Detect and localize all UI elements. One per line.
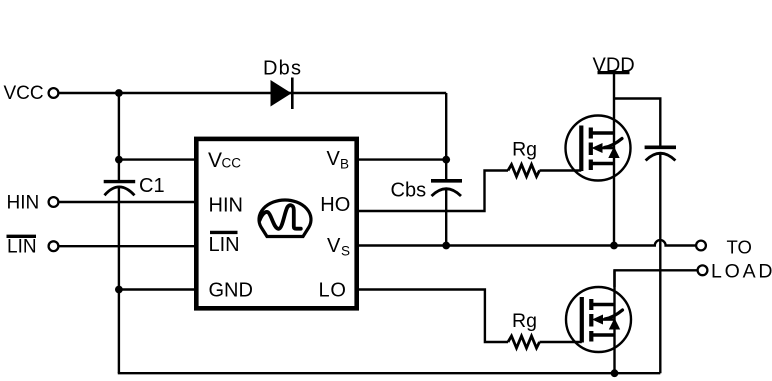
svg-text:LIN: LIN (209, 234, 240, 256)
terminal TO (696, 241, 706, 251)
svg-text:CC: CC (222, 156, 242, 171)
wire Q2 drain-source vertical (613, 270, 615, 373)
wire Rg to gate (upper) (540, 169, 582, 171)
svg-text:TO: TO (727, 237, 752, 258)
resistor Rg (upper) (508, 165, 540, 177)
wire LIN to IC (59, 245, 197, 247)
svg-text:HO: HO (320, 194, 350, 216)
svg-text:Cbs: Cbs (391, 180, 427, 202)
wire GND pin (119, 288, 197, 290)
junction dot VS/Q1 source (610, 242, 618, 250)
resistor Rg (lower) (508, 336, 540, 348)
pin label VCC (208, 149, 241, 172)
wire VCC down to VCC pin row (118, 93, 120, 160)
junction dot GND row (115, 286, 123, 294)
wire LO to Rg (lower) (357, 290, 509, 343)
wire HO to Rg (upper) (357, 171, 509, 212)
wire LOAD to Q2 drain (615, 270, 698, 287)
terminal LOAD (698, 265, 708, 275)
svg-text:V: V (327, 235, 341, 257)
node LIN label (with overbar) (7, 236, 37, 257)
svg-text:Rg: Rg (512, 310, 537, 332)
terminal VCC (49, 88, 59, 98)
pin label VB (327, 148, 350, 172)
capacitor Cbs (431, 160, 462, 246)
svg-text:VCC: VCC (4, 83, 44, 104)
svg-text:V: V (208, 149, 222, 172)
svg-text:HIN: HIN (209, 195, 243, 217)
wire Rg to gate (lower) (540, 341, 582, 343)
wire VDD branch to bulk cap (614, 99, 660, 148)
wire to IC VCC pin (119, 158, 197, 160)
svg-text:Dbs: Dbs (263, 58, 302, 80)
transistor Q2 (low-side MOSFET) (566, 287, 631, 352)
wire left down to bottom rail (118, 290, 120, 374)
wire HIN to IC (59, 201, 197, 203)
junction dot Cbs/VS (442, 242, 450, 250)
junction dot VCC/top (115, 89, 123, 97)
junction dot Q2 source / COM rail (611, 369, 619, 377)
svg-text:HIN: HIN (7, 193, 40, 214)
svg-text:LOAD: LOAD (711, 261, 772, 283)
op-amp U1 gate driver IC body (196, 139, 356, 308)
terminal LIN (49, 241, 59, 251)
capacitor bulk (VDD rail) (645, 147, 676, 373)
wire corner down to VB node (445, 93, 447, 160)
svg-text:LIN: LIN (7, 237, 37, 258)
svg-text:C1: C1 (139, 175, 165, 197)
wire VDD down through Q1 to VS (613, 73, 615, 246)
diode Dbs (271, 78, 293, 110)
svg-text:S: S (341, 244, 350, 259)
wire bottom rail (COM) (118, 372, 661, 374)
svg-text:V: V (327, 148, 341, 170)
junction dot VCC pin row (115, 156, 123, 164)
terminal HIN (49, 197, 59, 207)
svg-text:LO: LO (319, 280, 347, 302)
svg-text:Rg: Rg (512, 139, 537, 161)
junction dot VB/Cbs (442, 156, 450, 164)
svg-text:GND: GND (209, 280, 253, 302)
svg-text:B: B (340, 157, 349, 172)
wire VS line with hop (357, 240, 697, 245)
IC logo (oval with waveform) (259, 200, 311, 237)
transistor Q1 (high-side MOSFET) (566, 116, 631, 181)
capacitor C1 (104, 160, 136, 290)
wire VB to Cbs (357, 158, 447, 160)
pin label VS (327, 235, 350, 259)
wire VCC top rail (59, 92, 447, 94)
power rail VDD bar (598, 71, 630, 74)
pin label LIN (with overbar) (209, 232, 240, 256)
